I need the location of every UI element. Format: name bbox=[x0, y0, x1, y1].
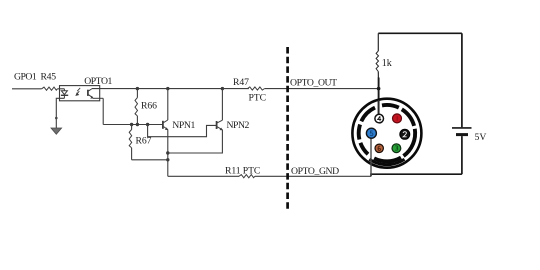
junction dot R66 top bbox=[136, 87, 139, 90]
junction dot NPN2 base branch bbox=[146, 123, 149, 126]
junction dot R67 bottom line bbox=[166, 158, 169, 161]
resistor R47 bbox=[247, 87, 264, 90]
phototransistor inside OPTO1 bbox=[88, 89, 103, 98]
svg-text:R66: R66 bbox=[141, 100, 157, 111]
wire mid line to NPN1 base bbox=[103, 124, 162, 126]
light emission arrow bbox=[76, 88, 80, 95]
NPN1 emitter arrow bbox=[165, 127, 168, 130]
battery 5V positive plate bbox=[452, 127, 472, 129]
svg-text:OPTO_GND: OPTO_GND bbox=[291, 166, 339, 177]
wire 1k down to junction bbox=[377, 72, 379, 79]
wire input from GPO1 bbox=[12, 88, 42, 90]
wire NPN2 base routing bbox=[148, 125, 217, 137]
junction dot NPN2 collector bbox=[221, 87, 224, 90]
junction dot R67 top bbox=[130, 123, 133, 126]
battery 5V negative plate bbox=[456, 133, 468, 136]
pin 1 bbox=[393, 114, 402, 123]
LED inside OPTO1 bbox=[61, 89, 68, 99]
wire top rail 5V loop bbox=[378, 32, 462, 34]
wire battery negative down bbox=[461, 136, 463, 174]
wire R47 to connector pin4 branch bbox=[265, 88, 379, 90]
wire NPN1 emitter down bbox=[167, 130, 169, 177]
junction dot R66 bottom bbox=[136, 123, 139, 126]
svg-text:OPTO1: OPTO1 bbox=[84, 76, 112, 87]
wire top rail: opto collector to R47 bbox=[92, 88, 249, 90]
resistor R67 bbox=[129, 125, 132, 160]
connector J1 inner keyed ring bbox=[359, 105, 415, 161]
svg-text:R47: R47 bbox=[233, 77, 249, 88]
ground bbox=[51, 128, 62, 134]
svg-text:R11 PTC: R11 PTC bbox=[225, 166, 260, 177]
svg-text:NPN1: NPN1 bbox=[172, 120, 195, 131]
connector J1 bottom shell arc bbox=[369, 159, 404, 164]
wire R45 to OPTO1 bbox=[57, 88, 64, 90]
wire opto emitter down to mid node bbox=[102, 98, 104, 124]
resistor R45 bbox=[42, 87, 58, 90]
connector J1 outer shell bbox=[352, 99, 421, 168]
phototransistor emitter arrow bbox=[90, 96, 93, 99]
svg-text:R45: R45 bbox=[41, 72, 57, 83]
wire into pin 4 bbox=[378, 100, 380, 115]
dashed isolation boundary bbox=[286, 47, 289, 210]
junction dot OPTO_OUT to pin4 bbox=[377, 87, 381, 91]
junction dot emitters bbox=[166, 151, 169, 154]
wire NPN2 collector up bbox=[221, 89, 223, 121]
wire OPTO_GND run bbox=[168, 175, 239, 177]
opto-coupler OPTO1 package box bbox=[60, 86, 100, 101]
wire pin 5 down bbox=[370, 138, 372, 176]
pin 5 bbox=[366, 128, 376, 138]
pin 3 bbox=[392, 144, 401, 153]
transistor NPN1 bbox=[163, 120, 168, 130]
wire NPN1 collector up bbox=[167, 89, 169, 120]
wire NPN2 emitter down and left bbox=[168, 130, 223, 153]
pin 6 bbox=[375, 144, 383, 152]
svg-text:5V: 5V bbox=[475, 132, 487, 143]
wire right vertical to battery bbox=[461, 33, 463, 127]
resistor R11 PTC bbox=[239, 175, 255, 178]
wire LED cathode down bbox=[56, 98, 64, 128]
resistor 1k bbox=[376, 51, 378, 72]
wire R67 bottom to emitter line bbox=[132, 159, 168, 161]
wire rail down to 1k bbox=[377, 33, 379, 51]
svg-text:PTC: PTC bbox=[249, 92, 266, 103]
svg-text:NPN2: NPN2 bbox=[227, 120, 250, 131]
resistor R66 bbox=[135, 89, 138, 125]
junction on ground wire bbox=[55, 117, 58, 120]
pin 4 bbox=[375, 114, 384, 123]
transistor NPN2 bbox=[217, 120, 223, 130]
wire junction down to pin 4 bbox=[378, 78, 380, 116]
wire battery return to pin5 node bbox=[371, 174, 462, 176]
wire R11 to pin5 branch bbox=[255, 175, 371, 177]
pin 2 bbox=[400, 129, 410, 139]
junction dot NPN1 collector bbox=[166, 87, 169, 90]
svg-text:1k: 1k bbox=[382, 58, 392, 69]
NPN2 emitter arrow bbox=[220, 128, 223, 131]
svg-text:OPTO_OUT: OPTO_OUT bbox=[290, 77, 337, 88]
svg-text:GPO1: GPO1 bbox=[14, 72, 37, 83]
